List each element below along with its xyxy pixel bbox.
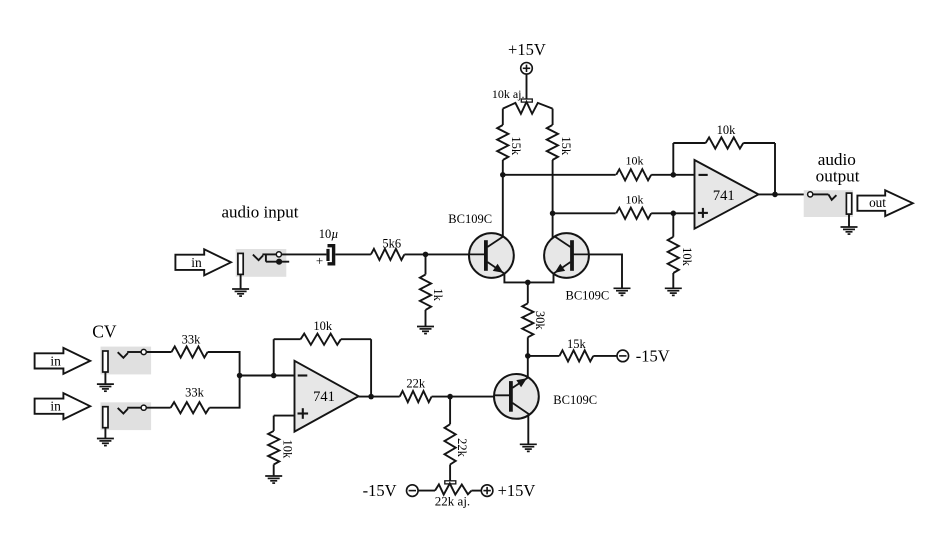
wire U1 feedback up: [672, 143, 674, 175]
wire output jack to ground: [848, 214, 850, 227]
capacitor 10u electrolytic: [316, 246, 334, 268]
resistor 15k (left collector load): [497, 125, 508, 160]
wire U2 feedback top left: [274, 338, 301, 340]
wire summing node to U2 - input: [240, 375, 295, 377]
svg-text:15k: 15k: [559, 136, 573, 156]
wire 22k to pot wiper: [449, 465, 451, 481]
ground (audio input jack): [232, 289, 249, 296]
ground (U2 + input): [265, 476, 282, 483]
junction CV summing node: [237, 373, 243, 379]
junction Q1 collector / feedback line: [500, 172, 506, 178]
potentiometer 10k aj. (track): [503, 102, 553, 114]
power +15V supply terminal: [508, 40, 546, 74]
svg-text:+: +: [316, 253, 323, 268]
wire U2 feedback top right: [341, 338, 371, 340]
potentiometer 10k aj. (wiper): [521, 99, 532, 102]
resistor 10k (U1 + input to ground): [668, 237, 679, 273]
junction U1 output / feedback: [772, 192, 778, 198]
wire 10k to ground: [672, 273, 674, 288]
transistor Q2 BC109C: [544, 233, 589, 278]
wire U2 output: [359, 396, 400, 398]
wire pot right end to resistor 15k right: [552, 109, 554, 125]
wire U1 +input 10k down: [672, 213, 674, 237]
transistor Q3 BC109C (current source): [494, 374, 539, 419]
svg-text:741: 741: [713, 188, 735, 204]
svg-text:741: 741: [313, 389, 335, 405]
svg-text:BC109C: BC109C: [553, 393, 597, 407]
audio input jack: [236, 249, 290, 277]
junction U2 - input / feedback: [271, 373, 277, 379]
wire U2 feedback down: [370, 339, 372, 396]
wire U1 output: [759, 193, 808, 195]
output jack switch contact: [808, 192, 837, 200]
U2 - pin mark: [298, 374, 308, 376]
wire 30k to node: [527, 337, 529, 356]
resistor 10k (U1 feedback): [706, 137, 744, 148]
svg-text:-15V: -15V: [363, 481, 397, 500]
svg-text:10k aj.: 10k aj.: [492, 87, 525, 101]
svg-text:audio input: audio input: [222, 203, 299, 222]
wire node to 1k: [425, 254, 427, 274]
wire Q2 base to ground: [588, 254, 622, 288]
svg-text:10k: 10k: [626, 192, 644, 206]
resistor 22k (to wiper): [445, 424, 456, 464]
wire right 15k to Q2 collector: [552, 160, 554, 238]
ground (output jack): [841, 227, 858, 234]
op-amp U2 741: [295, 361, 359, 432]
resistor 15k (right collector load): [547, 125, 558, 160]
svg-text:-15V: -15V: [636, 346, 670, 365]
svg-text:CV: CV: [92, 322, 117, 342]
wire CV jack2 to ground: [104, 428, 106, 438]
wire +15V to potentiometer wiper: [526, 74, 528, 99]
junction U1 - input / feedback: [671, 172, 677, 178]
junction Q3 base / 22k vertical: [447, 394, 453, 400]
wire Q2 collector node to op-amp U1 non-inverting input: [553, 212, 616, 214]
svg-text:33k: 33k: [185, 386, 205, 400]
svg-text:30k: 30k: [533, 311, 547, 331]
svg-text:BC109C: BC109C: [566, 288, 610, 302]
wire node to 15k: [528, 355, 560, 357]
junction Q2 collector branch: [550, 211, 556, 217]
wire 5k6 to Q1 base: [404, 253, 469, 255]
junction 30k / 15k / Q3 emitter: [525, 353, 531, 359]
wire 1k to ground: [425, 310, 427, 327]
CV input jack 2: [101, 402, 152, 430]
resistor 33k (CV1): [172, 346, 208, 357]
ground (1k): [417, 327, 434, 334]
svg-text:out: out: [869, 195, 886, 210]
ground (CV jack 2): [97, 439, 114, 446]
wire U2 feedback up: [273, 339, 275, 375]
wire CV jack2 to 33k: [146, 407, 170, 409]
U1 - pin mark: [699, 174, 708, 176]
resistor 22k (U2 output): [400, 391, 432, 402]
wire capacitor to 5k6: [335, 253, 371, 255]
in arrow (CV 1): [35, 348, 91, 374]
svg-text:1k: 1k: [431, 288, 445, 301]
label audio output: [816, 150, 860, 185]
svg-text:10µ: 10µ: [319, 227, 339, 241]
wire pot left to -15V: [418, 490, 435, 492]
svg-text:in: in: [50, 353, 61, 368]
svg-text:22k aj.: 22k aj.: [435, 494, 470, 509]
svg-text:output: output: [816, 166, 860, 185]
resistor 1k: [420, 275, 431, 310]
op-amp U1 741: [695, 160, 759, 229]
wire Q1 emitter: [504, 273, 527, 282]
wire U2 + input down: [273, 416, 275, 431]
wire 33k CV1 to summing node: [208, 352, 240, 376]
power -15V terminal (15k): [617, 346, 670, 365]
wire U1 feedback top left: [673, 142, 705, 144]
wire Q1 collector node to op-amp U1 inverting input: [503, 174, 616, 176]
svg-text:33k: 33k: [182, 333, 202, 347]
junction U2 output / feedback: [368, 394, 374, 400]
svg-text:+15V: +15V: [508, 40, 546, 59]
wire 10k to U1 + input: [651, 212, 694, 214]
in arrow (CV 2): [35, 393, 91, 419]
svg-text:10k: 10k: [717, 123, 737, 137]
junction U1 + input / 10k to ground: [671, 211, 677, 217]
svg-text:+15V: +15V: [498, 481, 536, 500]
resistor 5k6: [371, 249, 405, 260]
wire U2 + input left: [274, 415, 295, 417]
output jack tip: [846, 193, 851, 214]
audio output jack (shaded): [804, 190, 853, 217]
wire pot left end to resistor 15k left: [502, 109, 504, 125]
wire U1 feedback top right: [743, 142, 775, 144]
wire CV jack1 to ground: [104, 373, 106, 385]
wire Q2 emitter: [528, 273, 554, 282]
svg-text:10k: 10k: [626, 154, 644, 168]
CV input jack 1: [101, 347, 152, 375]
svg-text:BC109C: BC109C: [448, 212, 492, 226]
junction emitters tail: [525, 280, 531, 286]
ground (Q2 base): [614, 288, 631, 295]
wire 10k to U1 - input: [651, 174, 694, 176]
junction Q1 base / 1k: [423, 252, 429, 258]
wire CV jack1 to 33k: [146, 351, 171, 353]
wire Q3 collector to ground: [527, 415, 529, 445]
potentiometer 22k aj. (wiper): [445, 481, 456, 484]
wire 15k to -15V terminal: [593, 355, 617, 357]
ground (U1 + input network): [665, 288, 682, 295]
potentiometer 22k aj. (track): [435, 483, 472, 494]
U2 + pin mark: [298, 408, 309, 419]
resistor 10k (U2 + input to ground): [268, 431, 279, 465]
wire node to Q3 emitter: [527, 356, 529, 378]
wire left 15k to Q1 collector: [502, 160, 504, 237]
svg-text:5k6: 5k6: [382, 237, 401, 251]
svg-text:in: in: [50, 399, 61, 414]
wire 33k CV2 to summing node: [209, 376, 239, 408]
power +15V terminal (pot): [481, 481, 535, 500]
svg-text:10k: 10k: [680, 247, 694, 267]
wire 22k to Q3 base: [432, 396, 495, 398]
wire audio jack sleeve to ground: [240, 275, 242, 290]
svg-text:10k: 10k: [280, 440, 294, 460]
out arrow: [857, 190, 912, 216]
power -15V terminal (pot): [363, 481, 418, 500]
wire U1 feedback down to output: [774, 143, 776, 194]
svg-text:10k: 10k: [313, 319, 333, 333]
svg-text:22k: 22k: [406, 376, 426, 390]
resistor 10k (U2 feedback): [301, 334, 341, 345]
resistor 10k (to U1 inverting input): [616, 169, 651, 180]
svg-text:15k: 15k: [567, 337, 587, 351]
wire node to 22k vertical: [449, 397, 451, 425]
resistor 30k: [522, 303, 533, 337]
resistor 15k (to -15V): [559, 350, 593, 361]
ground (CV jack 1): [97, 384, 114, 391]
in arrow (audio input): [175, 249, 231, 275]
svg-text:15k: 15k: [509, 136, 523, 156]
wire 10k to ground (U2): [273, 465, 275, 477]
resistor 33k (CV2): [171, 402, 210, 413]
wire tail to 30k: [527, 282, 529, 303]
wire pot right to +15V: [472, 490, 482, 492]
U1 + pin mark: [698, 208, 708, 218]
resistor 10k (to U1 + input): [616, 208, 651, 219]
transistor Q1 BC109C: [469, 233, 514, 278]
svg-text:22k: 22k: [455, 438, 469, 458]
ground (Q3 collector): [520, 444, 537, 451]
svg-text:in: in: [191, 255, 202, 270]
wire audio jack to capacitor: [282, 253, 327, 255]
